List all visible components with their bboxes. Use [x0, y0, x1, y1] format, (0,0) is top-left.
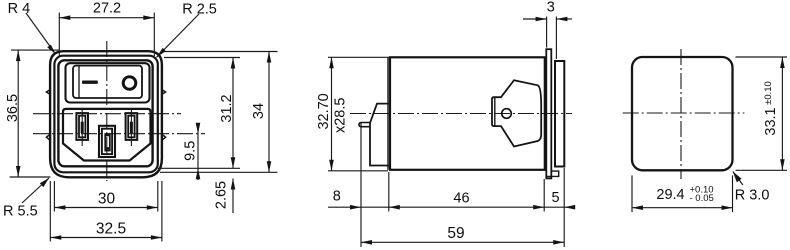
svg-text:32.70: 32.70 [316, 93, 332, 129]
svg-text:R 5.5: R 5.5 [3, 203, 38, 219]
svg-text:3: 3 [547, 0, 555, 16]
svg-text:59: 59 [447, 225, 464, 242]
svg-text:±0.10: ±0.10 [763, 81, 774, 105]
svg-text:30: 30 [98, 191, 116, 208]
svg-text:R 4: R 4 [8, 1, 31, 17]
svg-text:33.1: 33.1 [763, 107, 779, 135]
svg-text:- 0.05: - 0.05 [690, 193, 714, 204]
svg-text:R 2.5: R 2.5 [182, 1, 217, 17]
svg-text:29.4: 29.4 [656, 187, 684, 203]
svg-text:2.65: 2.65 [214, 181, 230, 209]
svg-text:8: 8 [333, 189, 341, 205]
svg-text:R 3.0: R 3.0 [735, 188, 770, 204]
svg-text:9.5: 9.5 [183, 141, 199, 161]
svg-text:36.5: 36.5 [5, 94, 21, 122]
svg-text:32.5: 32.5 [96, 221, 126, 238]
svg-text:27.2: 27.2 [93, 1, 121, 17]
svg-text:46: 46 [453, 190, 469, 206]
svg-text:31.2: 31.2 [219, 94, 235, 122]
svg-text:x28.5: x28.5 [333, 98, 349, 133]
svg-text:5: 5 [551, 190, 559, 206]
svg-text:34: 34 [251, 103, 267, 119]
